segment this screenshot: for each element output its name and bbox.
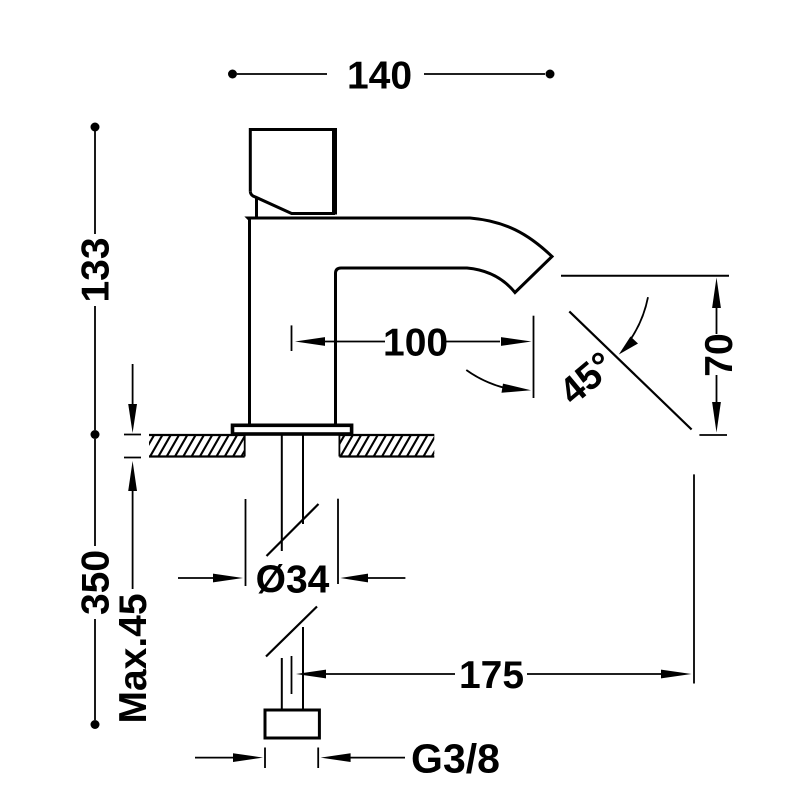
- faucet handle: [250, 128, 335, 217]
- angle arc left: [466, 370, 505, 388]
- dim Max.45 upper arrowhead: [128, 404, 137, 433]
- dim 70 top arrow: [712, 278, 721, 309]
- svg-text:100: 100: [383, 322, 448, 365]
- dim O34 left arrow: [178, 577, 214, 579]
- dim 100 right extension line: [533, 316, 535, 398]
- dim O34 right arrow: [367, 577, 405, 579]
- svg-text:140: 140: [347, 55, 412, 98]
- svg-text:133: 133: [75, 237, 118, 302]
- faucet body and spout: [248, 218, 552, 425]
- dim O34 right extension line: [337, 499, 339, 584]
- dim 133 bottom dot: [91, 430, 100, 439]
- dim 133 top dot: [91, 123, 100, 132]
- dim G3/8 right arrow: [321, 753, 351, 762]
- dim Max.45 upper line: [132, 364, 134, 404]
- dim 140 left dot: [228, 70, 237, 79]
- supply pipe upper segment: [282, 434, 303, 551]
- countertop left slab: [133, 434, 255, 459]
- dim O34 left extension line: [245, 499, 247, 586]
- stream 45deg line: [569, 311, 691, 429]
- svg-text:G3/8: G3/8: [411, 736, 500, 782]
- dim 140 line: [237, 73, 545, 75]
- dim 100 left tick: [291, 325, 293, 351]
- svg-text:Ø34: Ø34: [256, 559, 330, 602]
- dim 100 left arrow: [295, 337, 325, 346]
- dim 175 left tick: [291, 656, 293, 694]
- dim 70 bottom arrow: [716, 375, 718, 403]
- connector nut G3/8: [265, 710, 319, 738]
- faucet flange: [233, 425, 352, 434]
- spout tip reference line: [561, 275, 729, 277]
- angle arc right: [629, 297, 649, 342]
- dim 70 bottom tick: [699, 434, 727, 436]
- countertop right slab: [323, 434, 445, 459]
- dim 133 line: [94, 131, 96, 430]
- dim G3/8 right tick: [317, 748, 319, 769]
- dim 350 bottom dot: [91, 720, 100, 729]
- dim 140 right dot: [546, 70, 555, 79]
- pipe break 1: [267, 504, 319, 556]
- dim G3/8 left tick: [264, 748, 266, 769]
- svg-text:Max.45: Max.45: [112, 593, 155, 723]
- dim 175 right arrow: [527, 673, 661, 675]
- dim 100 right arrow: [446, 341, 500, 343]
- dim Max.45 top tick: [124, 434, 141, 436]
- dim 175 right extension line: [693, 474, 695, 683]
- dim Max.45 lower line: [132, 490, 134, 589]
- dim G3/8 left arrow: [195, 757, 234, 759]
- dim 175 left arrow: [296, 670, 326, 679]
- pipe break 2: [266, 607, 317, 657]
- supply pipe lower segment: [282, 627, 303, 710]
- svg-text:175: 175: [459, 654, 524, 697]
- dim 350 line: [94, 439, 96, 720]
- dim Max.45 bottom tick: [124, 457, 141, 459]
- dim Max.45 lower arrowhead: [128, 461, 137, 491]
- svg-text:70: 70: [698, 333, 741, 376]
